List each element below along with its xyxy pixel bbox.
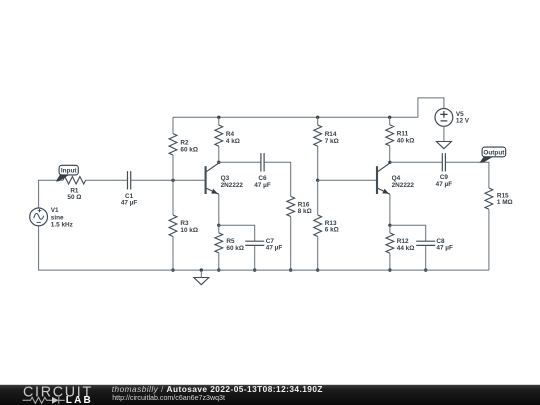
svg-text:1 MΩ: 1 MΩ	[497, 199, 513, 206]
ground symbol	[194, 270, 209, 285]
wire: R5 to rail	[218, 253, 220, 270]
svg-text:7 kΩ: 7 kΩ	[325, 138, 339, 145]
wire: R12 top lead	[389, 225, 391, 233]
footer bar	[0, 385, 540, 405]
wire: bottom ground rail	[39, 226, 489, 270]
svg-text:44 kΩ: 44 kΩ	[397, 245, 415, 252]
svg-text:47 µF: 47 µF	[436, 245, 453, 252]
wire: C7 to rail	[254, 245, 256, 270]
voltage source V1 (sine 1.5 kHz)	[30, 208, 48, 226]
resistor R14 zigzag	[314, 125, 322, 146]
wire: R15 to rail	[488, 209, 490, 270]
node: R16 bottom on rail	[289, 268, 292, 271]
node: Q4 emitter / R12 / C8 junction	[388, 224, 391, 227]
wire: base node to R3	[172, 180, 174, 215]
node: C7 bottom on rail	[253, 268, 256, 271]
svg-text:LAB: LAB	[66, 395, 93, 405]
wire: C8 to rail	[425, 245, 427, 270]
resistor R4 zigzag	[215, 125, 223, 146]
wire: R12 to rail	[389, 253, 391, 270]
svg-text:12 V: 12 V	[456, 118, 470, 125]
wire: R13 to rail	[317, 237, 319, 271]
capacitor C7 plates	[245, 241, 264, 245]
resistor R13 zigzag	[314, 215, 322, 237]
wire: R11 top lead	[389, 117, 391, 125]
svg-text:4 kΩ: 4 kΩ	[226, 138, 240, 145]
wire: emitter node to C8	[390, 225, 426, 241]
svg-text:10 kΩ: 10 kΩ	[180, 227, 198, 234]
svg-text:sine: sine	[51, 214, 64, 221]
voltage source V5 (12 V DC)	[435, 109, 453, 127]
node: Q4 collector / C9 junction	[388, 161, 391, 164]
svg-text:Output: Output	[483, 150, 505, 157]
wire: Q4 emitter to node	[389, 194, 391, 225]
wire: top VCC rail	[173, 98, 444, 117]
node: R11 top on rail	[388, 116, 391, 119]
resistor R2 zigzag	[169, 134, 177, 155]
capacitor C9 plates	[442, 153, 445, 171]
resistor R1 zigzag	[63, 177, 86, 184]
svg-text:6 kΩ: 6 kΩ	[325, 227, 339, 234]
wire: collector node to C9	[390, 161, 442, 163]
wire: R2 lead	[172, 117, 174, 133]
node: R4 top on rail	[217, 116, 220, 119]
node: Q3 collector / C6 junction	[217, 161, 220, 164]
node: Q3 emitter / R5 / C7 junction	[217, 224, 220, 227]
wire: R5 top lead	[218, 225, 220, 233]
capacitor C8 plates	[416, 241, 435, 245]
wire: R14 top lead	[317, 117, 319, 125]
wire: Q3 emitter to node	[218, 194, 220, 225]
svg-text:47 µF: 47 µF	[121, 200, 138, 207]
resistor R16 zigzag	[287, 196, 295, 216]
node: C8 bottom on rail	[424, 268, 427, 271]
node: ground symbol on rail	[200, 268, 203, 271]
capacitor C6 plates	[261, 153, 264, 171]
wire: R2 to base node	[172, 155, 174, 180]
node: R5 bottom on rail	[217, 268, 220, 271]
wire: R11 to Q4 collector node	[389, 146, 391, 163]
wire: R4 to Q3 collector node	[218, 146, 220, 162]
wire: V1 top to input node	[39, 180, 63, 208]
transistor Q3	[206, 163, 219, 194]
svg-text:V1: V1	[51, 207, 59, 214]
resistor R3 zigzag	[169, 215, 177, 237]
node: R12 bottom on rail	[388, 268, 391, 271]
wire: C6 to R16	[264, 162, 291, 196]
wire: C9 to output corner	[446, 162, 489, 188]
wire: C1 to base node of Q3	[131, 179, 206, 181]
svg-text:8 kΩ: 8 kΩ	[298, 208, 312, 215]
svg-text:thomasbilly / Autosave 2022-05: thomasbilly / Autosave 2022-05-13T08:12:…	[112, 384, 323, 394]
wire: base node to Q4	[318, 179, 377, 181]
svg-text:50 Ω: 50 Ω	[67, 194, 81, 201]
svg-text:47 µF: 47 µF	[266, 245, 283, 252]
wire: R4 top lead	[218, 117, 220, 125]
logo resistor-diode squiggle	[23, 397, 65, 404]
wire: R16 to ground rail	[290, 217, 292, 271]
input flag	[56, 165, 78, 181]
output flag	[479, 147, 505, 163]
svg-text:2N2222: 2N2222	[221, 182, 244, 189]
wire: R13 top lead	[317, 180, 319, 215]
svg-text:60 kΩ: 60 kΩ	[226, 245, 244, 252]
resistor R15 zigzag	[485, 188, 493, 209]
node: R3 bottom on rail	[171, 268, 174, 271]
resistor R5 zigzag	[215, 233, 223, 253]
wire: Q3 collector stub	[218, 161, 220, 164]
svg-text:1.5 kHz: 1.5 kHz	[51, 222, 73, 229]
svg-text:47 µF: 47 µF	[436, 181, 453, 188]
node: R14 top on rail	[316, 116, 319, 119]
svg-text:Input: Input	[61, 168, 77, 175]
resistor R11 zigzag	[386, 125, 394, 146]
wire: collector node to C6	[219, 161, 261, 163]
logo diode triangle	[52, 397, 59, 404]
transistor Q4	[377, 163, 390, 194]
node: R13 bottom on rail	[316, 268, 319, 271]
wire: R3 to ground rail	[172, 237, 174, 271]
node: R14/R13/Q4 base junction	[316, 179, 319, 182]
svg-text:40 kΩ: 40 kΩ	[397, 137, 415, 144]
wire: R14 to base node	[317, 146, 319, 180]
node: R2/R3/Q3 base junction	[171, 179, 174, 182]
svg-text:47 µF: 47 µF	[254, 182, 271, 189]
svg-text:2N2222: 2N2222	[392, 182, 415, 189]
svg-text:http://circuitlab.com/c6an6e7z: http://circuitlab.com/c6an6e7z3wq3t	[112, 394, 225, 402]
wire: emitter node to C7	[219, 225, 255, 241]
capacitor C1 plates	[128, 171, 131, 189]
resistor R12 zigzag	[386, 233, 394, 253]
svg-text:60 kΩ: 60 kΩ	[180, 146, 198, 153]
wire: R1 to C1	[86, 179, 128, 181]
ground below V5	[436, 126, 451, 148]
